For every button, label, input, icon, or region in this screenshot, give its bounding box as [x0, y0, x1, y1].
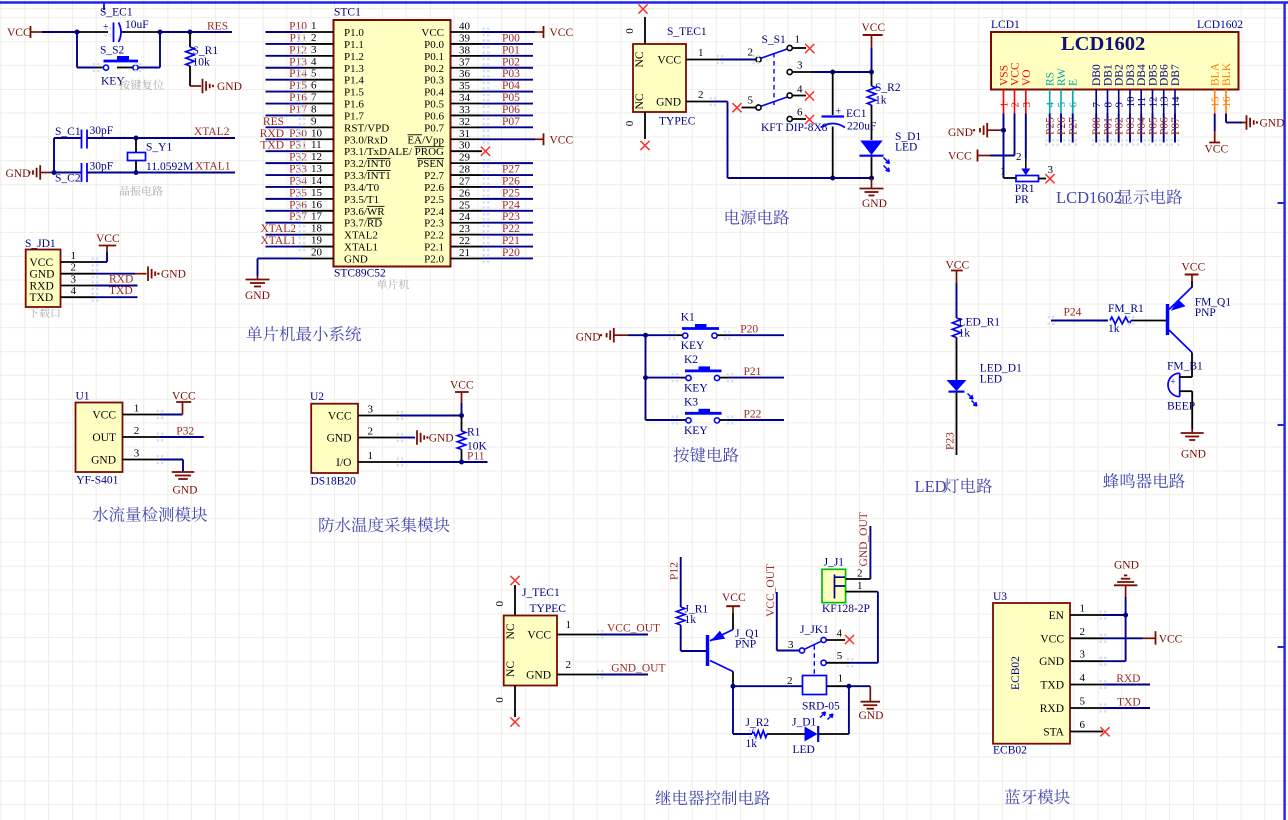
- svg-text:XTAL1: XTAL1: [195, 161, 231, 173]
- svg-text:RES: RES: [263, 116, 284, 128]
- svg-text:2: 2: [787, 675, 793, 687]
- svg-text:GND: GND: [1039, 656, 1064, 668]
- wire LCD pin16 BLK to GND: [1225, 114, 1227, 123]
- svg-text:+: +: [1171, 377, 1176, 387]
- wire net row pin 13: [266, 174, 303, 176]
- title 单片机最小系统: [247, 326, 262, 341]
- svg-text:RXD: RXD: [30, 281, 54, 293]
- svg-text:VCC: VCC: [421, 27, 444, 39]
- pin 13 STC1: [302, 174, 334, 176]
- pin 2 U1: [123, 436, 161, 438]
- svg-text:NC: NC: [634, 51, 646, 67]
- svg-text:P25: P25: [502, 187, 520, 199]
- svg-text:TYPEC: TYPEC: [659, 116, 696, 128]
- svg-text:40: 40: [459, 21, 471, 33]
- svg-text:P0.4: P0.4: [424, 87, 444, 99]
- annotation 下载口: [28, 308, 38, 318]
- no-connect X pin 30: [481, 147, 490, 156]
- svg-text:VCC: VCC: [1205, 144, 1229, 156]
- ground GND (MCU): [257, 276, 259, 280]
- wire pin3 to node: [1103, 660, 1126, 662]
- pin 37 STC1: [451, 67, 483, 69]
- pin 2 S_JD1: [61, 273, 96, 275]
- power port VCC (pin 31): [535, 138, 544, 140]
- svg-text:1: 1: [1080, 603, 1086, 615]
- svg-text:P3.1/TxD: P3.1/TxD: [344, 146, 387, 158]
- pin 1 J_TEC1: [557, 634, 600, 636]
- svg-text:0: 0: [624, 28, 636, 34]
- svg-text:0: 0: [494, 600, 506, 606]
- pin 3 STC1: [302, 55, 334, 57]
- svg-text:16: 16: [311, 199, 323, 211]
- svg-text:VCC_OUT: VCC_OUT: [607, 623, 660, 635]
- node S_D1 bottom: [869, 176, 874, 181]
- LED S_D1: [860, 141, 883, 156]
- pin 10 STC1: [302, 138, 334, 140]
- svg-text:XTAL2: XTAL2: [194, 126, 230, 138]
- svg-text:P00: P00: [1091, 117, 1103, 135]
- svg-text:10: 10: [1125, 96, 1137, 108]
- svg-text:DB2: DB2: [1114, 64, 1126, 86]
- wire J_D1 to junction: [818, 733, 849, 735]
- pin 9 STC1: [302, 126, 334, 128]
- wire VSS node down to PR1 pin1: [1003, 130, 1005, 178]
- svg-text:31: 31: [459, 128, 470, 140]
- svg-text:VCC: VCC: [550, 27, 574, 39]
- pin 23 STC1: [451, 234, 483, 236]
- svg-text:XTAL2: XTAL2: [261, 223, 297, 235]
- svg-text:2: 2: [1016, 151, 1022, 163]
- pin 2 J_TEC1: [557, 674, 600, 676]
- svg-text:1: 1: [134, 403, 140, 415]
- svg-text:GND: GND: [173, 485, 198, 497]
- svg-text:P25: P25: [1045, 117, 1057, 135]
- resistor J_R2 1k: [733, 733, 752, 735]
- wire R1 to node P11: [461, 450, 463, 463]
- J_JK1 pin5 wire: [826, 662, 850, 664]
- svg-text:P2.4: P2.4: [424, 206, 444, 218]
- switch S_S1 blade 5-4: [761, 97, 788, 106]
- wire U1 pin1 to VCC: [160, 414, 183, 416]
- svg-text:P05: P05: [1148, 117, 1160, 135]
- wire net TXD (download): [95, 296, 138, 298]
- wire collector to buzzer: [1191, 353, 1193, 378]
- svg-text:P0.1: P0.1: [424, 51, 444, 63]
- svg-text:P01: P01: [1103, 117, 1115, 135]
- wire net P01: [482, 55, 533, 57]
- svg-text:1k: 1k: [685, 614, 697, 626]
- svg-text:LCD1602: LCD1602: [1056, 188, 1122, 207]
- wire net RXD (download): [95, 285, 138, 287]
- switch J_JK1 contact 5: [821, 660, 826, 665]
- switch J_JK1 contact 3: [799, 648, 804, 653]
- svg-text:STA: STA: [1043, 727, 1064, 739]
- svg-text:P26: P26: [1056, 117, 1068, 135]
- svg-text:RS: RS: [1045, 72, 1057, 86]
- svg-text:P14: P14: [289, 68, 307, 80]
- svg-text:11: 11: [1136, 97, 1148, 108]
- wire net P20: [482, 257, 533, 259]
- wire junction to capacitor S_EC1: [77, 31, 108, 33]
- wire U1 pin3 to GND: [160, 459, 183, 461]
- svg-text:5: 5: [837, 650, 843, 662]
- svg-text:39: 39: [459, 32, 471, 44]
- svg-text:S_C2: S_C2: [55, 173, 81, 185]
- switch K1 KEY: [646, 334, 677, 336]
- svg-text:17: 17: [311, 211, 323, 223]
- svg-text:14: 14: [311, 175, 323, 187]
- annotation 单片机: [377, 279, 387, 289]
- wire net TXD (bluetooth): [1103, 707, 1150, 709]
- pin 39 STC1: [451, 43, 483, 45]
- pin 38 STC1: [451, 55, 483, 57]
- pin 1 S_TEC1 VCC: [686, 59, 720, 61]
- J_JK1 dashed link to coil: [813, 645, 815, 675]
- wire net XTAL2: [136, 137, 235, 139]
- title 按键电路: [674, 447, 690, 462]
- wire net P21: [482, 246, 533, 248]
- S_S1 pin 6 stub and X: [792, 118, 806, 120]
- svg-text:3: 3: [368, 404, 374, 416]
- svg-text:S_Y1: S_Y1: [146, 142, 172, 154]
- J_JK1 blade 3-4: [804, 641, 821, 649]
- svg-text:VCC: VCC: [7, 27, 31, 39]
- node R1 top: [459, 413, 464, 418]
- svg-text:YF-S401: YF-S401: [76, 475, 118, 487]
- PR1 pin3 stub and X: [1039, 178, 1047, 180]
- svg-text:DS18B20: DS18B20: [311, 476, 357, 488]
- node relay coil left: [731, 684, 736, 689]
- svg-text:5: 5: [1080, 696, 1086, 708]
- wire net XTAL1: [136, 172, 235, 174]
- pin 20 GND wire: [258, 257, 303, 259]
- wire S_C1 right to XTAL2 node: [87, 137, 136, 139]
- svg-text:GND: GND: [1260, 118, 1285, 130]
- wire U2 pin1 to node: [400, 461, 462, 463]
- svg-text:VO: VO: [1021, 69, 1033, 86]
- wire net P32: [160, 436, 204, 438]
- svg-text:2: 2: [71, 262, 77, 274]
- svg-text:P05: P05: [502, 92, 520, 104]
- svg-text:S_TEC1: S_TEC1: [667, 26, 707, 38]
- S_S1 pin 1 stub and X: [792, 47, 806, 49]
- wire net RES: [190, 31, 232, 33]
- svg-text:P1.5: P1.5: [344, 87, 364, 99]
- wire net P22: [482, 234, 533, 236]
- svg-text:GND: GND: [576, 332, 601, 344]
- svg-text:LED: LED: [980, 374, 1002, 386]
- svg-text:EN: EN: [1049, 610, 1065, 622]
- wire net P24: [482, 210, 533, 212]
- switch S_S1 contact 1: [787, 45, 792, 50]
- pin 16 STC1: [302, 210, 334, 212]
- svg-text:10k: 10k: [193, 57, 211, 69]
- svg-text:J_R2: J_R2: [746, 717, 770, 729]
- wire net P11: [462, 461, 488, 463]
- svg-text:P2.0: P2.0: [424, 253, 444, 265]
- svg-text:XTAL1: XTAL1: [344, 242, 378, 254]
- wire net P04: [482, 91, 533, 93]
- wire GND to key bus: [628, 334, 646, 336]
- svg-text:J_J1: J_J1: [824, 557, 845, 569]
- svg-text:1k: 1k: [746, 738, 758, 750]
- LED_D1 arrows: [968, 394, 974, 400]
- svg-text:GND: GND: [327, 433, 352, 445]
- svg-text:1: 1: [566, 619, 572, 631]
- wire net row pin 17: [266, 222, 303, 224]
- transistor FM_Q1 PNP base bar: [1166, 304, 1169, 335]
- svg-text:P1.1: P1.1: [344, 39, 364, 51]
- pin 6 STC1: [302, 91, 334, 93]
- node XTAL1 junction: [134, 170, 139, 175]
- wire net row pin 5: [266, 79, 303, 81]
- svg-text:RXD: RXD: [260, 128, 284, 140]
- S_TEC1 top pin 0: [644, 17, 646, 44]
- wire VCC to emitter: [732, 613, 734, 630]
- pin 35 STC1: [451, 91, 483, 93]
- pin 7 STC1: [302, 103, 334, 105]
- svg-text:P24: P24: [1064, 307, 1082, 319]
- pin 2 STC1: [302, 43, 334, 45]
- wire corner down to GND node: [53, 138, 55, 173]
- wire pin2 to GND: [95, 273, 135, 275]
- svg-text:P0.5: P0.5: [424, 99, 444, 111]
- svg-text:GND: GND: [217, 81, 242, 93]
- wire LCD pin1 VSS down: [1003, 114, 1005, 131]
- svg-text:VCC: VCC: [527, 630, 551, 642]
- capacitor S_C2 30pF: [54, 172, 82, 174]
- svg-text:P06: P06: [1159, 117, 1171, 135]
- wire net P03: [482, 79, 533, 81]
- svg-text:27: 27: [459, 175, 471, 187]
- potentiometer PR1 body: [1016, 176, 1039, 182]
- svg-text:P3.6/WR: P3.6/WR: [344, 206, 385, 218]
- svg-text:P3.3/INT1: P3.3/INT1: [344, 170, 391, 182]
- ground GND (buzzer): [1191, 429, 1193, 433]
- svg-text:P00: P00: [502, 32, 520, 44]
- svg-text:12: 12: [1148, 97, 1160, 108]
- svg-text:9: 9: [1114, 102, 1126, 108]
- switch K2 KEY: [646, 377, 680, 379]
- svg-text:11: 11: [311, 139, 322, 151]
- sheet border tick right 3: [1278, 646, 1285, 648]
- resistor LED_R1 1k: [952, 318, 960, 338]
- svg-text:P2.6: P2.6: [424, 182, 444, 194]
- svg-text:VCC: VCC: [30, 257, 54, 269]
- node junction left of S_EC1: [75, 30, 80, 35]
- svg-text:P03: P03: [1125, 117, 1137, 135]
- J_TEC1 top pin 0: [514, 585, 516, 616]
- LED J_D1: [805, 727, 818, 742]
- svg-text:P11: P11: [467, 451, 485, 463]
- svg-text:P2.5: P2.5: [424, 194, 444, 206]
- svg-text:11.0592M: 11.0592M: [146, 161, 193, 173]
- wire pin 40 to VCC: [482, 31, 535, 33]
- wire GND down to pin3: [1125, 597, 1127, 661]
- FM_Q1 emitter with arrow: [1169, 287, 1192, 310]
- wire LED_D1 to net P23: [956, 392, 958, 455]
- svg-text:P04: P04: [502, 80, 520, 92]
- wire J_R2 to LED J_D1: [767, 733, 805, 735]
- ground GND (reset circuit): [190, 85, 201, 87]
- svg-text:GND: GND: [91, 455, 116, 467]
- pin 27 STC1: [451, 186, 483, 188]
- switch J_JK1 contact 4: [821, 637, 826, 642]
- svg-text:2: 2: [857, 568, 863, 580]
- title 显示电路: [1117, 189, 1132, 203]
- svg-text:3: 3: [797, 60, 803, 72]
- svg-text:3: 3: [788, 639, 794, 651]
- svg-text:P04: P04: [1136, 117, 1148, 135]
- svg-text:VCC: VCC: [862, 22, 886, 34]
- wire net row pin 1: [266, 31, 303, 33]
- svg-text:ECB02: ECB02: [1010, 656, 1022, 690]
- svg-text:KFT DIP-8X8: KFT DIP-8X8: [761, 122, 828, 134]
- svg-text:P2.1: P2.1: [424, 242, 444, 254]
- svg-text:21: 21: [459, 247, 470, 259]
- svg-text:14: 14: [1170, 96, 1182, 108]
- pin 21 STC1: [451, 257, 483, 259]
- svg-text:LCD1602: LCD1602: [1197, 19, 1243, 31]
- svg-text:EC1: EC1: [846, 108, 867, 120]
- svg-text:RW: RW: [1056, 68, 1068, 86]
- wire VCC to junction: [42, 31, 77, 33]
- pin 33 STC1: [451, 114, 483, 116]
- svg-text:10: 10: [311, 127, 323, 139]
- LCD data/control wires down: [1049, 114, 1051, 143]
- resistor FM_R1 1k: [1110, 317, 1131, 324]
- svg-text:5: 5: [748, 95, 754, 107]
- pin 4 S_JD1: [61, 296, 96, 298]
- title 蜂鸣器电路: [1103, 473, 1119, 488]
- power port VCC (LCD): [978, 155, 990, 157]
- svg-text:P23: P23: [945, 432, 957, 450]
- svg-text:XTAL2: XTAL2: [344, 230, 378, 242]
- svg-text:GND: GND: [429, 433, 454, 445]
- svg-text:VCC_OUT: VCC_OUT: [765, 564, 777, 617]
- wire net P21: [720, 377, 728, 379]
- svg-text:16: 16: [1221, 96, 1233, 108]
- ground GND (download): [135, 273, 147, 275]
- svg-text:P3.5/T1: P3.5/T1: [344, 194, 379, 206]
- wire S_C1 left to corner: [54, 137, 82, 139]
- switch S_S1 contact 5 with X: [732, 103, 741, 112]
- wire net row pin 10: [266, 138, 303, 140]
- svg-text:P24: P24: [502, 199, 520, 211]
- wire net row pin 3: [266, 55, 303, 57]
- svg-text:DB3: DB3: [1125, 64, 1137, 86]
- sheet border tick right 2: [1278, 424, 1285, 426]
- wire net row pin 12: [266, 162, 303, 164]
- wire net row pin 19: [266, 246, 303, 248]
- svg-text:2: 2: [698, 89, 704, 101]
- J_TEC1 bottom pin 0: [514, 686, 516, 718]
- svg-text:K1: K1: [681, 312, 695, 324]
- svg-text:STC1: STC1: [334, 7, 361, 19]
- title 电源电路: [726, 210, 740, 225]
- svg-text:1: 1: [71, 250, 77, 262]
- svg-text:P0.0: P0.0: [424, 39, 444, 51]
- pin 3 U2: [358, 415, 400, 417]
- wire S_C2 right to XTAL1 node: [87, 172, 136, 174]
- svg-text:2: 2: [368, 426, 374, 438]
- svg-text:P35: P35: [289, 187, 307, 199]
- J_J1 pin 1: [846, 591, 878, 593]
- wire VCC to emitter: [1191, 281, 1193, 288]
- wire GND_OUT up: [869, 526, 871, 579]
- svg-text:RXD: RXD: [1116, 673, 1140, 685]
- pin 29 STC1: [451, 162, 483, 164]
- svg-text:GND: GND: [656, 97, 681, 109]
- pin 8 STC1: [302, 114, 334, 116]
- svg-text:4: 4: [311, 56, 317, 68]
- svg-text:3: 3: [1080, 649, 1086, 661]
- svg-text:P20: P20: [740, 324, 758, 336]
- pin 1 S_JD1: [61, 261, 96, 263]
- svg-text:P2.2: P2.2: [424, 230, 444, 242]
- wire buzzer to GND: [1191, 391, 1193, 429]
- wire S_R1 to GND: [189, 66, 191, 86]
- svg-text:P06: P06: [502, 104, 520, 116]
- wire net row pin 6: [266, 91, 303, 93]
- wire LCD pin15 BLA down to VCC: [1214, 114, 1216, 132]
- wire net row pin 2: [266, 43, 303, 45]
- wire net P07: [482, 126, 533, 128]
- resistor S_R1 10k: [189, 32, 191, 47]
- overline RD: [367, 217, 382, 219]
- svg-text:KEY: KEY: [684, 425, 708, 437]
- svg-text:EA/Vpp: EA/Vpp: [407, 134, 444, 146]
- crystal S_Y1 11.0592M: [135, 138, 137, 153]
- node GND junction crystal: [52, 170, 57, 175]
- overline EA/Vpp on EA: [408, 134, 423, 136]
- svg-text:P0.2: P0.2: [424, 63, 444, 75]
- pin 31 STC1: [451, 138, 483, 140]
- wire net row pin 11: [266, 150, 303, 152]
- svg-text:23: 23: [459, 223, 471, 235]
- pin 30 STC1: [451, 150, 483, 152]
- svg-text:LCD1602: LCD1602: [1061, 33, 1145, 55]
- svg-text:3: 3: [1021, 102, 1033, 108]
- svg-text:33: 33: [459, 104, 471, 116]
- svg-text:LCD1: LCD1: [991, 19, 1020, 31]
- svg-text:DB7: DB7: [1170, 64, 1182, 86]
- svg-text:P1.0: P1.0: [344, 27, 364, 39]
- svg-text:TXD: TXD: [260, 140, 284, 152]
- svg-text:DB0: DB0: [1091, 64, 1103, 86]
- ground GND (U1): [172, 471, 195, 473]
- J_JK1 pin4 stub and X: [826, 639, 845, 641]
- svg-text:LED: LED: [793, 744, 815, 756]
- wire net GND_OUT: [600, 674, 648, 676]
- svg-text:BLK: BLK: [1221, 62, 1233, 86]
- pin 1 U1: [123, 414, 161, 416]
- wire net row pin 16: [266, 210, 303, 212]
- wire net P23: [482, 222, 533, 224]
- wire net row pin 7: [266, 103, 303, 105]
- annotation 按键复位: [119, 80, 130, 90]
- svg-text:7: 7: [311, 92, 317, 104]
- svg-text:XTAL1: XTAL1: [261, 235, 297, 247]
- svg-text:GND: GND: [1114, 560, 1139, 572]
- svg-text:KEY: KEY: [684, 383, 708, 395]
- svg-text:32: 32: [459, 116, 470, 128]
- svg-text:1k: 1k: [875, 95, 887, 107]
- resistor J_R1 1k: [677, 607, 685, 625]
- power port VCC (pin 40): [535, 31, 544, 33]
- switch S_S1 contact 4: [787, 93, 792, 98]
- svg-text:P26: P26: [502, 175, 520, 187]
